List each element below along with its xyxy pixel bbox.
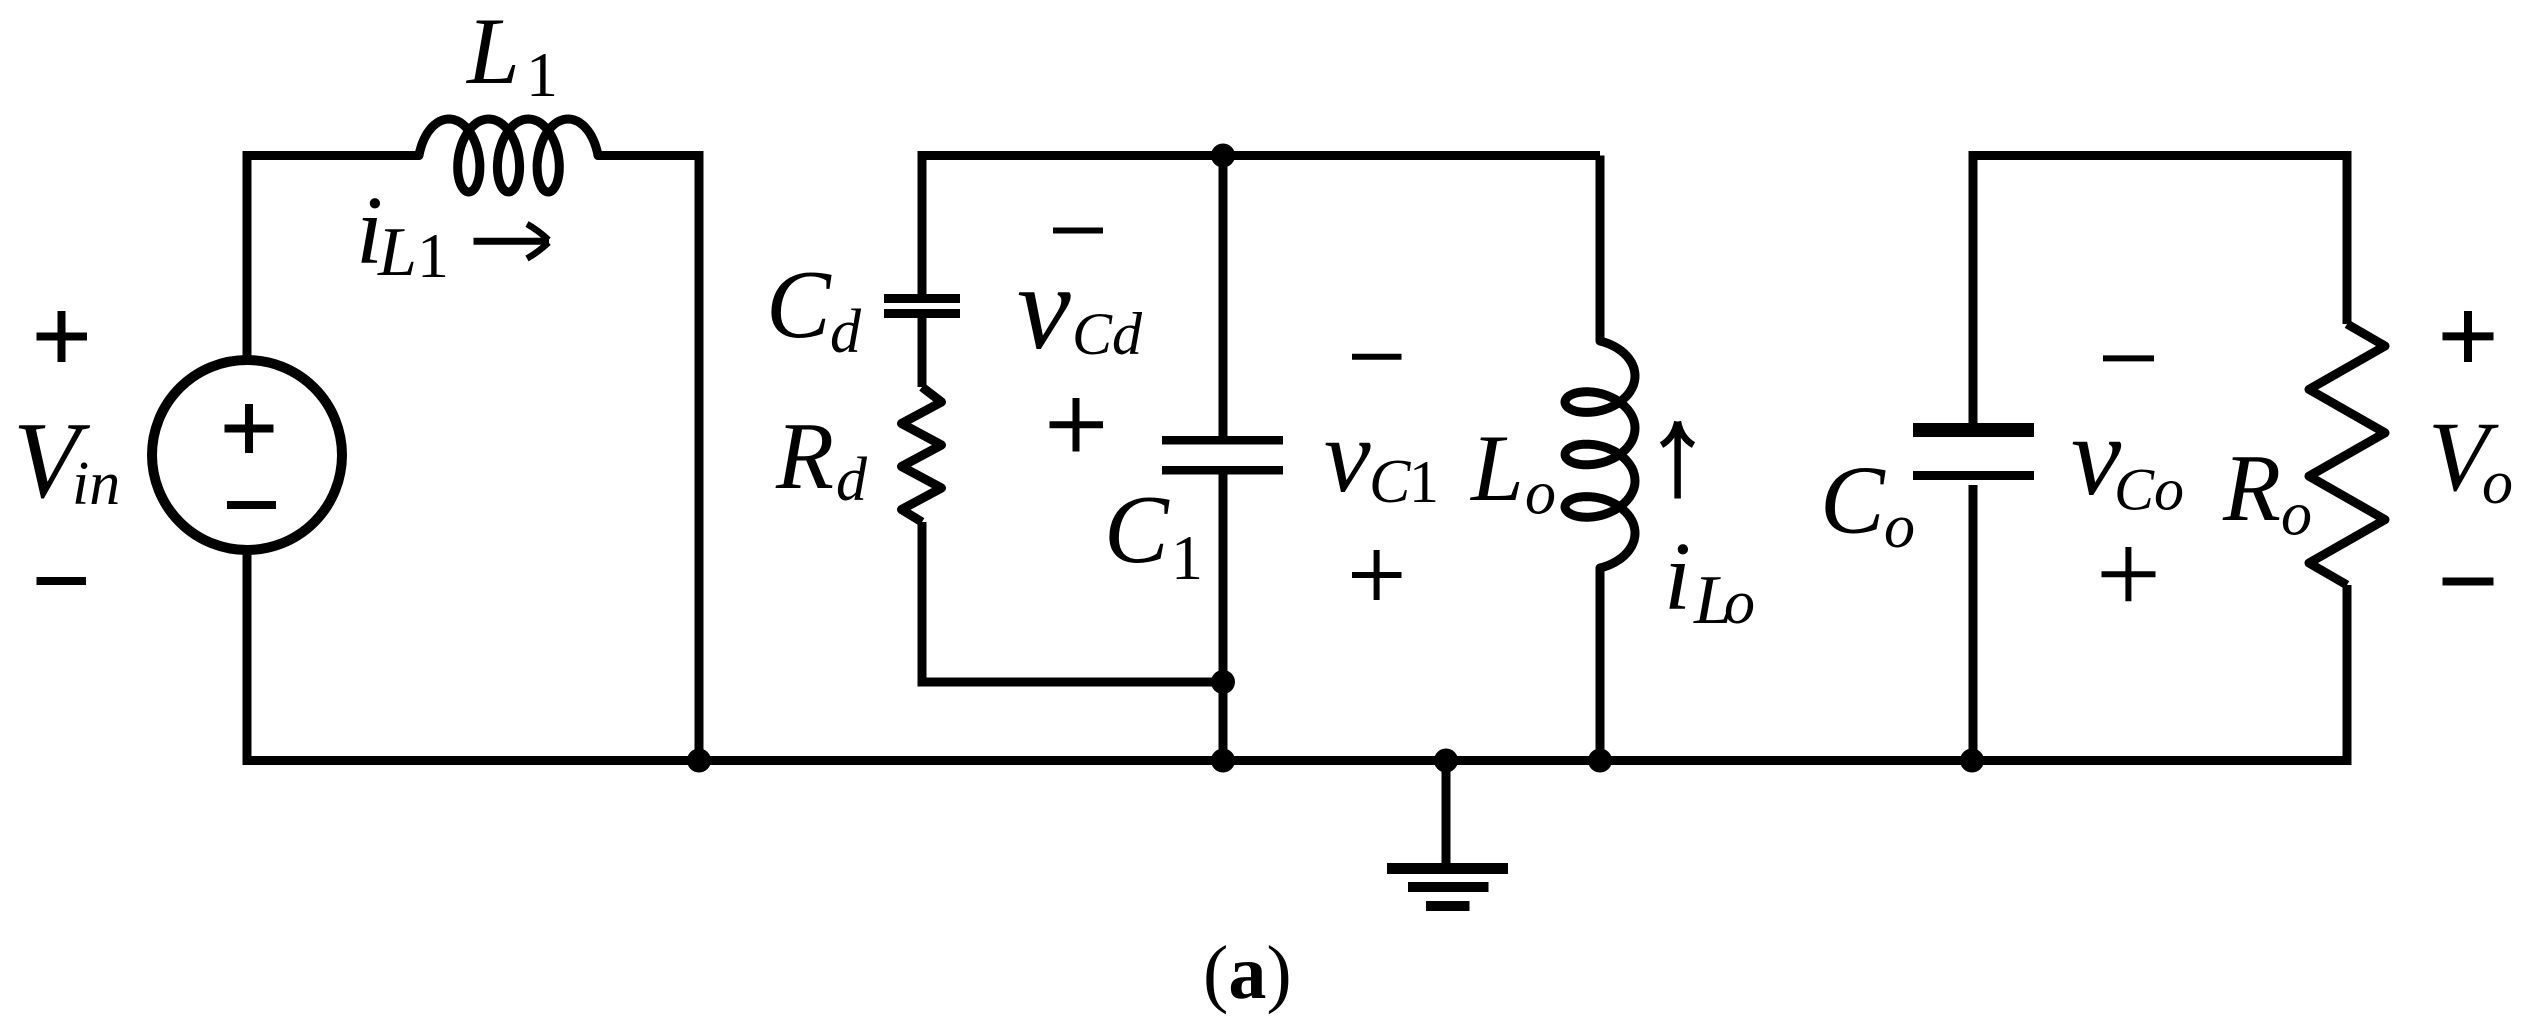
svg-text:d: d: [830, 298, 862, 366]
svg-text:i: i: [1664, 523, 1691, 630]
minus sign Vo: [2443, 578, 2494, 586]
wire: C1 branch vertical: [1219, 156, 1228, 761]
svg-text:L: L: [1469, 415, 1524, 521]
inductor Lo: [1565, 341, 1635, 568]
svg-text:C: C: [1104, 476, 1170, 583]
svg-text:Cd: Cd: [1072, 301, 1143, 367]
junction node: Cd/Rd bottom rail at C1: [1211, 670, 1235, 694]
plus sign Vin outer: [37, 311, 88, 362]
wire: right loop (Co top rail and Ro side): [1969, 151, 2348, 765]
wire: left loop top (Vin top to L1): [243, 151, 420, 357]
svg-text:L: L: [465, 0, 520, 104]
svg-text:C: C: [766, 251, 832, 358]
svg-text:C: C: [1820, 447, 1886, 554]
junction node: bottom rail at Co: [1960, 749, 1984, 773]
svg-text:v: v: [1017, 241, 1071, 375]
svg-text:R: R: [2222, 435, 2281, 541]
svg-text:L: L: [377, 214, 417, 291]
wire: ground stem: [1442, 761, 1451, 869]
svg-text:in: in: [72, 450, 120, 518]
minus sign Vin outer: [37, 577, 87, 585]
svg-text:1: 1: [417, 220, 449, 291]
svg-text:Co: Co: [2114, 457, 2184, 523]
wire: Cd/Rd branch bottom rail to C1: [918, 678, 1224, 687]
resistor Rd: [902, 387, 942, 522]
svg-text:o: o: [1525, 460, 1556, 528]
svg-text:o: o: [1884, 493, 1915, 561]
plus sign Vo: [2443, 311, 2494, 362]
capacitor Co plates: [1913, 423, 2034, 437]
junction node: bottom rail at left loop: [687, 749, 711, 773]
svg-text:o: o: [2482, 449, 2513, 517]
capacitor C1 plates: [1162, 436, 1283, 445]
svg-text:1: 1: [1409, 449, 1439, 515]
plus sign vCd: [1050, 398, 1104, 452]
plus sign vCo: [2102, 547, 2156, 601]
ground bar 2: [1408, 882, 1489, 892]
svg-text:o: o: [2281, 481, 2312, 549]
wire: middle loop top rail: [918, 151, 1601, 682]
junction node: bottom rail at Lo: [1588, 749, 1612, 773]
voltage source Vin circle: [152, 360, 342, 550]
ground bar 3: [1426, 901, 1470, 911]
capacitor Cd plates: [884, 294, 960, 303]
minus sign vC1: [1352, 354, 1402, 360]
minus sign vCd: [1053, 228, 1103, 234]
resistor Ro: [2309, 324, 2385, 585]
svg-text:C: C: [1369, 448, 1411, 516]
ground bar 1: [1387, 863, 1508, 874]
svg-text:o: o: [1724, 569, 1755, 637]
junction node: top of C1: [1211, 144, 1235, 168]
minus sign vCo: [2103, 355, 2154, 361]
wire: Lo branch vertical: [1596, 156, 1605, 761]
wire: Vin bottom to bottom rail: [243, 553, 700, 765]
junction node: bottom rail at ground: [1434, 749, 1458, 773]
current arrow iL1: [474, 238, 550, 245]
junction node: bottom rail at C1: [1211, 749, 1235, 773]
current arrow iLo: [1674, 428, 1681, 499]
wire: bottom rail (Vin loop to right loop): [699, 756, 2352, 765]
inductor L1: [419, 119, 598, 192]
plus sign inside Vin: [225, 404, 274, 453]
svg-text:1: 1: [1171, 522, 1203, 593]
svg-text:1: 1: [526, 39, 558, 110]
plus sign vC1: [1352, 550, 1402, 600]
svg-text:R: R: [775, 403, 834, 509]
svg-text:d: d: [836, 446, 868, 514]
minus sign inside Vin: [227, 501, 276, 509]
wire: L1 right to corner and down to bottom: [598, 151, 699, 761]
svg-text:(a): (a): [1203, 931, 1292, 1015]
svg-text:v: v: [1324, 397, 1371, 514]
